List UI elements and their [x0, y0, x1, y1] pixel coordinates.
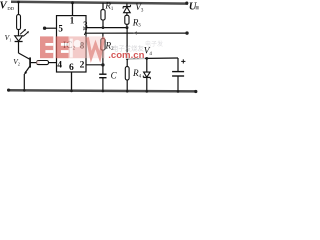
- label V1: [5, 33, 12, 42]
- label R2: [105, 41, 115, 52]
- pin number 7: [83, 27, 88, 37]
- label R1: [104, 1, 114, 12]
- wire pin 7 line to right terminal: [86, 32, 187, 34]
- node pin2 / R2 / C junction: [101, 63, 104, 66]
- wire output line to C2: [177, 58, 179, 71]
- wire pin 5 stub: [45, 27, 57, 29]
- label C: [111, 70, 118, 80]
- wire V3 to R3: [126, 13, 128, 16]
- resistor R5 (LED series, unlabeled): [17, 15, 21, 30]
- pin number 3: [83, 20, 88, 30]
- wire R5 to LED V1: [18, 30, 20, 36]
- pin number 1: [70, 15, 75, 25]
- label R3: [132, 17, 142, 28]
- watermark EEPW pink logo: [36, 36, 105, 64]
- resistor R2 (hangs from pin7 line): [101, 33, 105, 50]
- wire pin 3 output line: [86, 27, 127, 29]
- watermark red .com.cn: [108, 50, 144, 61]
- label V2: [13, 57, 20, 66]
- watermark gray hanzi row 1: [112, 44, 145, 53]
- wire R2 to C node: [102, 50, 104, 74]
- wire pin 6 to ground rail: [71, 72, 73, 91]
- node R4-rail junction: [126, 90, 129, 93]
- wire VDD rail to zener V3: [126, 3, 128, 6]
- node emitter-rail junction: [23, 89, 26, 92]
- node V4-rail junction: [146, 90, 149, 93]
- node V4 tap on output line: [145, 57, 148, 60]
- wire VDD to R5: [18, 2, 20, 15]
- pin number 5: [58, 24, 63, 34]
- wire top supply rail VDD: [11, 2, 188, 4]
- zener diode V4: [143, 58, 150, 79]
- wire R6 to IC pin 4: [49, 62, 57, 64]
- resistor R4: [125, 59, 129, 80]
- wire R3 to pin3 line: [126, 24, 128, 27]
- resistor R6 (base resistor, unlabeled): [37, 61, 49, 65]
- wire emitter of V2 to ground rail: [23, 74, 25, 90]
- label R4: [132, 68, 142, 79]
- wire R4 to ground rail: [126, 80, 128, 91]
- pin number 4: [57, 60, 62, 71]
- pin number 8: [80, 41, 85, 51]
- LED V1: [15, 29, 29, 42]
- label IC2: [63, 41, 76, 52]
- wire output node line: [127, 57, 178, 60]
- wire pin 1 to VDD rail: [72, 3, 74, 16]
- watermark gray hanzi row 2: [145, 40, 163, 48]
- svg-text:.com.cn: .com.cn: [108, 50, 144, 61]
- node pin7 line right terminal: [185, 31, 188, 34]
- node R3 / pin3 junction: [126, 26, 129, 29]
- zener diode V3: [123, 5, 130, 13]
- pin number 2: [80, 60, 85, 71]
- node C2-rail junction: [177, 90, 180, 93]
- node pin1 junction on VDD rail: [71, 1, 74, 4]
- wire LED V1 to collector of V2: [18, 42, 20, 54]
- transistor V2: [19, 53, 31, 75]
- node R1 / pin3 junction: [102, 26, 105, 29]
- node VDD junction left chain: [17, 1, 20, 4]
- label V4: [144, 47, 153, 57]
- pin number 6: [69, 62, 74, 73]
- wire V4 to ground rail: [146, 77, 148, 91]
- node U terminal on VDD rail: [185, 1, 188, 4]
- wire C2 to ground rail: [177, 76, 179, 92]
- capacitor C: [99, 74, 106, 78]
- wire bottom ground rail: [8, 90, 196, 91]
- wire pin 2 to C node: [86, 64, 103, 66]
- op-amp IC2 body (555 timer box): [57, 16, 87, 72]
- node left end of bottom rail: [7, 89, 10, 92]
- svg-text:4: 4: [149, 52, 152, 57]
- node right end of bottom rail: [194, 90, 197, 93]
- capacitor C2 (polarized output cap): [172, 59, 185, 76]
- label U output: [189, 1, 199, 12]
- node output line left junction: [126, 57, 129, 60]
- node C-rail junction: [102, 90, 105, 93]
- label VDD: [0, 0, 15, 12]
- wire arrow artifact on pin7 line: [133, 31, 137, 34]
- node pin6-rail junction: [70, 90, 73, 93]
- wire R1 to pin3 line: [102, 20, 104, 28]
- resistor R1: [101, 10, 105, 20]
- wire VDD rail to R1: [102, 3, 104, 10]
- wire C to ground rail: [102, 78, 104, 91]
- label V3: [135, 3, 144, 13]
- node pin5 stub terminal: [43, 27, 46, 30]
- wire pin3 node down to output node: [126, 28, 128, 59]
- wire base of V2 to R6: [31, 62, 37, 64]
- resistor R3: [125, 15, 129, 24]
